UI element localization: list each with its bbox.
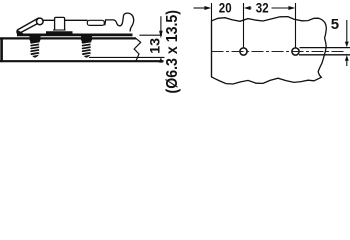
dim 5 vertical [346,20,348,66]
right profile: step, saddle, hook [105,13,134,31]
arrow right at left edge [204,6,211,10]
mounting plate [17,13,134,35]
svg-text:20: 20 [219,1,232,17]
screw 1 [29,35,41,58]
arrow down at upper tangent [345,42,349,48]
slot [87,20,104,25]
hole extension lines [244,3,296,48]
boss flange line [53,29,66,31]
arrow up at lower tangent [345,55,349,61]
left drawing: side view of mounting plate on board [0,38,165,63]
arrow down at board top [159,31,163,39]
wing circle [37,18,44,25]
centerline dashed [212,51,346,53]
hole 2 [292,48,299,55]
upper tail [160,16,162,31]
arrow right at hole2 [288,6,295,10]
drill bottom line [89,56,165,58]
arrow left at hole1 [244,6,251,10]
lower tail [160,59,162,62]
plate top edge [43,19,87,21]
base extension line [139,34,162,36]
dim 13 (left) [139,16,162,62]
svg-text:5: 5 [331,16,339,33]
board top edge [0,37,136,39]
screw 2 [81,35,93,58]
left edge extension up [211,3,213,77]
board left end cap [0,38,3,63]
boss [55,17,65,30]
dia 5 tangent lines [300,47,350,49]
plate base bar [17,34,133,37]
wing outer diagonal [17,18,39,33]
svg-text:32: 32 [256,1,269,17]
panel outline [212,17,327,84]
arrow up at drill line [159,57,163,62]
boss pad [46,31,73,33]
board bottom edge [0,60,164,62]
wing inner diagonal [21,23,38,32]
board break line [134,38,141,61]
svg-text:13: 13 [147,38,163,54]
wing foot fill [17,30,24,34]
hole 1 [240,48,247,55]
top dimension line [194,7,290,9]
svg-text:(Ø6.3 x 13.5): (Ø6.3 x 13.5) [164,10,181,94]
